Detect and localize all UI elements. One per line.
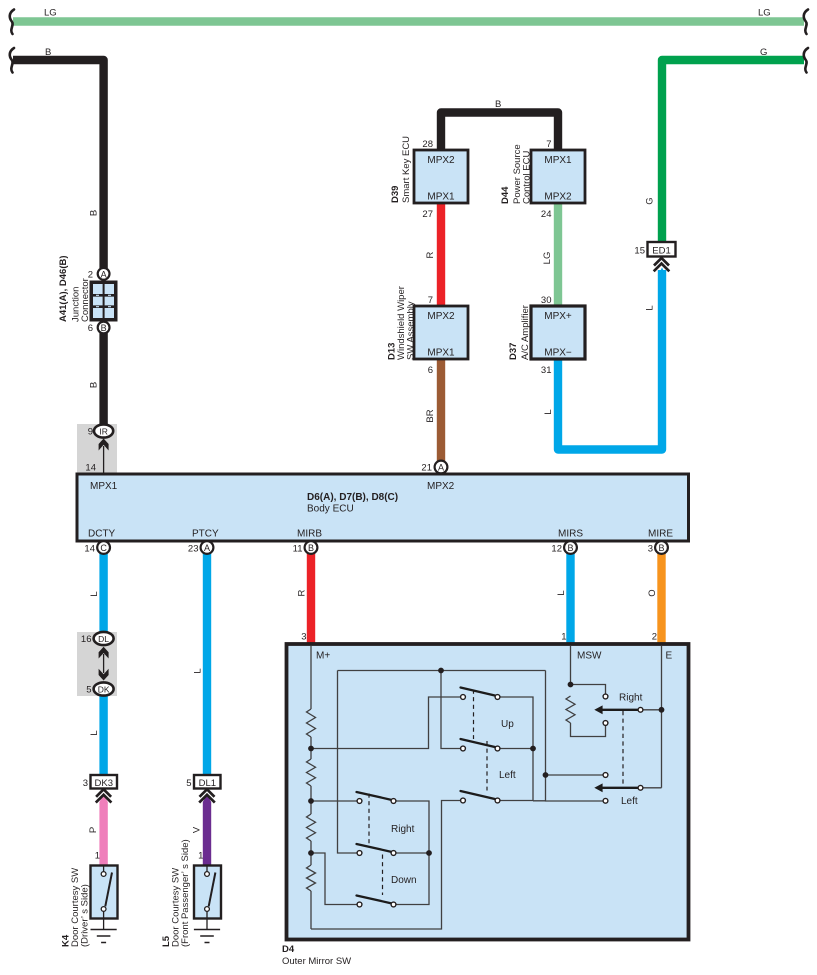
pin 16 label	[81, 634, 92, 645]
chevron connector under DL1	[199, 789, 215, 802]
wire bottom rail to left contact of bottom left-switch	[311, 801, 461, 930]
pin 14 label	[85, 463, 96, 474]
svg-text:MPX2: MPX2	[544, 192, 572, 203]
label G vertical	[645, 197, 656, 204]
svg-text:28: 28	[422, 139, 433, 150]
blade up switch	[461, 688, 498, 697]
pin 7 of D44	[546, 139, 551, 150]
svg-text:MIRB: MIRB	[297, 529, 322, 540]
label L vertical PTCY	[193, 668, 204, 673]
chevron connector under DK3	[96, 789, 112, 802]
power source control ECU D44	[531, 150, 585, 203]
label LG left	[44, 8, 57, 19]
label A41(A) D46(B) junction connector	[58, 255, 91, 322]
label L vertical near ED1	[645, 305, 656, 310]
label Outer Mirror SW	[282, 956, 351, 967]
svg-text:3: 3	[301, 632, 306, 643]
wire L blue MIRS pin12 to D4	[566, 554, 574, 645]
pin 1 K4 label	[95, 851, 100, 862]
svg-text:V: V	[192, 826, 203, 833]
wire L blue DCTY pin14 to DL oval	[99, 554, 107, 634]
wire middle right contact link of right-down group	[396, 852, 429, 854]
svg-text:B: B	[495, 99, 501, 110]
svg-text:7: 7	[428, 295, 433, 306]
svg-text:B: B	[101, 323, 107, 333]
label LG vertical	[542, 252, 553, 265]
label L vertical near D37	[543, 409, 554, 414]
arrow tip of select right blade	[594, 705, 602, 714]
svg-text:IR: IR	[99, 427, 108, 437]
link up-left switches 1-2	[473, 690, 475, 740]
svg-text:Body ECU: Body ECU	[307, 504, 354, 515]
wire from node R3-R4 to down-switch left contact	[311, 853, 357, 905]
svg-text:MPX2: MPX2	[427, 155, 455, 166]
wire select left switch pivot to E line	[643, 787, 662, 789]
svg-text:14: 14	[85, 463, 96, 474]
pin 9 label	[88, 427, 93, 438]
wire right bracket of right-down group	[396, 801, 429, 905]
svg-text:DCTY: DCTY	[88, 529, 116, 540]
wire LG top horizontal	[13, 17, 804, 26]
label L vertical DCTY lower	[89, 730, 100, 735]
svg-text:9: 9	[88, 427, 93, 438]
svg-text:D39: D39	[390, 186, 401, 203]
svg-text:A/C Amplifier: A/C Amplifier	[520, 305, 531, 360]
svg-text:Left: Left	[499, 770, 516, 781]
wire middle right contact link of up-left group	[500, 748, 533, 750]
pin 3 DK3 label	[83, 778, 88, 789]
blade bottom switch of up-left group	[461, 791, 498, 800]
wire top rail right drop to mirror-select left switch contacts	[546, 671, 604, 802]
arrow up under IR oval	[99, 439, 109, 451]
svg-text:5: 5	[86, 685, 91, 696]
label P vertical	[88, 827, 99, 833]
svg-text:L: L	[89, 730, 100, 735]
svg-text:3: 3	[83, 778, 88, 789]
blade select right switch	[601, 709, 641, 711]
wire BR brown D13 pin6 to body ECU pin21	[437, 360, 445, 461]
wire B black junction connector B to IR oval	[99, 333, 107, 426]
label L vertical MIRS	[556, 590, 567, 595]
connector DK3	[91, 775, 118, 789]
label K4 Door Courtesy SW (Driver s Side)	[61, 868, 91, 947]
arrow down above DK	[99, 669, 109, 681]
break symbol right of G wire	[804, 48, 808, 73]
break symbol left of LG wire	[10, 10, 14, 35]
connector oval DK	[94, 682, 114, 695]
contact circles select switches	[603, 694, 643, 803]
wire select right switch pivot to E line	[643, 709, 662, 711]
wire branch to upper contact of select left switch	[546, 774, 604, 776]
pin 3 MIRE label	[648, 544, 653, 555]
node B circle below junction connector	[98, 322, 110, 334]
svg-text:G: G	[645, 197, 656, 204]
node A circle at body ECU pin 21	[435, 461, 448, 474]
svg-text:6: 6	[88, 323, 93, 334]
label E	[666, 651, 673, 662]
shield gray area around IR	[77, 424, 117, 474]
arrow tip of select left blade	[594, 783, 602, 792]
svg-text:Right: Right	[619, 693, 643, 704]
contact circles up-left group	[461, 695, 500, 803]
wire top rail node drop to middle contact of up-left group	[441, 671, 461, 749]
pin 11 MIRB label	[293, 544, 303, 555]
svg-text:1: 1	[198, 851, 203, 862]
resistor chain R4	[307, 865, 316, 891]
svg-text:21: 21	[421, 463, 432, 474]
smart key ECU D39	[414, 150, 468, 203]
label L5 Door Courtesy SW (Front Passenger s Side)	[161, 839, 191, 947]
label Right (right-down group)	[391, 824, 415, 835]
pin 6 of D13	[428, 365, 433, 376]
svg-text:1: 1	[561, 632, 566, 643]
svg-text:Smart Key ECU: Smart Key ECU	[401, 136, 412, 203]
pin 2 E label	[652, 632, 657, 643]
svg-text:Outer Mirror SW: Outer Mirror SW	[282, 956, 351, 967]
resistor MSW	[566, 696, 575, 723]
connector DL1	[194, 775, 221, 789]
svg-text:16: 16	[81, 634, 92, 645]
svg-text:MIRS: MIRS	[558, 529, 583, 540]
svg-text:A: A	[438, 463, 444, 473]
svg-text:B: B	[45, 47, 51, 58]
svg-text:G: G	[760, 47, 767, 58]
wire from node R2-R3 to right-switch left contact	[311, 800, 357, 802]
label Left (up-left group)	[499, 770, 516, 781]
wire B black from left edge down to junction connector	[13, 60, 104, 268]
svg-text:12: 12	[551, 544, 562, 555]
svg-text:Connector: Connector	[80, 278, 91, 322]
connector ED1	[648, 242, 676, 257]
wire right bracket of up-left group	[500, 697, 546, 801]
svg-text:(Driver’ s Side): (Driver’ s Side)	[80, 884, 91, 947]
svg-text:MPX1: MPX1	[544, 155, 572, 166]
link select switches	[622, 711, 624, 786]
pin 14 DCTY label	[84, 544, 95, 555]
label D44 Power Source Control ECU	[500, 144, 533, 204]
label B horizontal	[45, 47, 51, 58]
svg-text:L: L	[543, 409, 554, 414]
link right-down switches 1-2	[368, 794, 370, 844]
wire R red MIRB pin11 to D4	[307, 554, 315, 645]
svg-text:Control ECU: Control ECU	[522, 151, 533, 204]
svg-text:Down: Down	[391, 875, 417, 886]
thin link line between arrows	[103, 654, 105, 673]
label Up	[501, 719, 514, 730]
svg-text:L: L	[193, 668, 204, 673]
node A circle above junction connector	[98, 268, 110, 280]
svg-text:MPX2: MPX2	[427, 311, 455, 322]
wire segments of resistor chain	[310, 737, 312, 929]
svg-text:30: 30	[541, 295, 552, 306]
label B vertical lower	[89, 382, 100, 388]
A/C amplifier D37	[531, 306, 585, 359]
blade select left switch	[601, 787, 641, 789]
resistor chain R1	[307, 709, 316, 737]
junction dots inside D4	[308, 668, 664, 856]
pin 12 MIRS label	[551, 544, 562, 555]
svg-text:P: P	[88, 827, 99, 833]
chevron connector under ED1	[654, 258, 670, 271]
wire from node R1-R2 to up-switch left contact	[311, 697, 461, 749]
svg-text:MPX−: MPX−	[544, 348, 572, 359]
node B circle at pin 11 MIRB	[305, 541, 318, 554]
svg-text:R: R	[425, 251, 436, 258]
wire top rail left drop to middle contact of right-down group	[338, 671, 358, 854]
ground symbol under L5	[194, 919, 220, 943]
svg-text:LG: LG	[758, 8, 771, 19]
door courtesy SW L5	[194, 866, 221, 919]
svg-text:27: 27	[422, 209, 433, 220]
blade right switch (right-down group top)	[357, 792, 394, 800]
svg-text:L: L	[556, 590, 567, 595]
svg-text:SW Assembly: SW Assembly	[405, 301, 416, 360]
wire L blue DK oval to DK3	[99, 694, 107, 775]
svg-text:O: O	[647, 589, 658, 596]
wire V violet DL1 to L5 with pointed tip	[203, 794, 211, 865]
svg-text:DL1: DL1	[199, 778, 216, 789]
svg-text:24: 24	[541, 209, 552, 220]
node B circle at pin 12 MIRS	[564, 541, 577, 554]
connector oval IR	[94, 424, 113, 437]
svg-text:L: L	[89, 591, 100, 596]
wire L blue D37 pin31 to ED1	[558, 270, 662, 450]
blade left switch (up-left group middle)	[461, 739, 498, 748]
pin 1 L5 label	[198, 851, 203, 862]
label D37 A/C Amplifier	[508, 305, 531, 360]
node C circle at pin 14 DCTY	[97, 541, 110, 554]
svg-text:L: L	[645, 305, 656, 310]
svg-text:5: 5	[186, 778, 191, 789]
wire G green from right edge down to ED1	[662, 60, 804, 242]
label LG right	[758, 8, 771, 19]
svg-text:2: 2	[652, 632, 657, 643]
svg-text:BR: BR	[425, 409, 436, 422]
svg-text:B: B	[308, 543, 314, 553]
label B vertical upper	[89, 210, 100, 216]
pin 24 of D44	[541, 209, 552, 220]
svg-text:DL: DL	[98, 634, 109, 644]
svg-text:DK: DK	[98, 685, 110, 695]
svg-text:(Front Passenger’ s Side): (Front Passenger’ s Side)	[180, 839, 191, 947]
wire L blue PTCY pin23 to DL1	[203, 554, 211, 776]
pin 3 M+ label	[301, 632, 306, 643]
pin 1 MSW label	[561, 632, 566, 643]
svg-text:MIRE: MIRE	[648, 529, 673, 540]
node B circle at pin 3 MIRE	[655, 541, 668, 554]
svg-text:PTCY: PTCY	[192, 529, 219, 540]
wire LG D44 pin24 to D37 pin30	[554, 203, 562, 306]
link right-down switches 2-3	[382, 855, 384, 896]
label D4	[282, 944, 295, 955]
svg-text:MPX1: MPX1	[90, 481, 118, 492]
label MSW	[577, 651, 602, 662]
label BR vertical	[425, 409, 436, 422]
label D39 Smart Key ECU	[390, 136, 412, 203]
wire top rail	[338, 670, 546, 672]
label L vertical DCTY upper	[89, 591, 100, 596]
svg-text:11: 11	[293, 544, 303, 555]
svg-text:B: B	[89, 382, 100, 388]
wire MSW node to upper contact of select right switch	[571, 685, 606, 695]
svg-text:E: E	[666, 651, 673, 662]
svg-text:A: A	[101, 269, 107, 279]
connector oval DL	[94, 632, 114, 645]
pin 27 of D39	[422, 209, 433, 220]
svg-text:D37: D37	[508, 343, 519, 360]
svg-text:MSW: MSW	[577, 651, 602, 662]
svg-text:3: 3	[648, 544, 653, 555]
svg-text:MPX2: MPX2	[427, 481, 455, 492]
node A circle at pin 23 PTCY	[201, 541, 214, 554]
label D13 Windshield Wiper SW Assembly	[387, 286, 417, 360]
wire E feed	[661, 646, 663, 788]
svg-text:14: 14	[84, 544, 95, 555]
svg-text:MPX1: MPX1	[427, 192, 455, 203]
shield gray area around DL DK	[77, 632, 117, 696]
pin 6 label	[88, 323, 93, 334]
link up-left switches 2-3	[486, 741, 488, 791]
outer mirror SW D4 box	[287, 644, 689, 940]
wire M+ feed into resistor chain	[310, 646, 312, 709]
svg-text:6: 6	[428, 365, 433, 376]
resistor chain R3	[307, 814, 316, 841]
svg-text:DK3: DK3	[95, 778, 113, 789]
wire R red D39 pin27 to D13 pin7	[437, 203, 445, 306]
door courtesy SW K4	[91, 866, 118, 919]
dashed mechanical links	[369, 690, 623, 896]
svg-text:LG: LG	[542, 252, 553, 265]
svg-text:D44: D44	[500, 186, 511, 204]
svg-text:A41(A), D46(B): A41(A), D46(B)	[58, 255, 69, 322]
svg-text:B: B	[89, 210, 100, 216]
wire L blue pointed tip under ED1 chevron	[658, 268, 666, 277]
label M+	[316, 651, 330, 662]
pin 7 of D13	[428, 295, 433, 306]
pin 15 of ED1	[634, 246, 645, 257]
label Right (select)	[619, 693, 643, 704]
svg-text:1: 1	[95, 851, 100, 862]
wire O orange MIRE pin3 to D4	[657, 554, 665, 645]
thin wire from arrow to body ECU pin 14	[103, 446, 105, 473]
svg-text:D4: D4	[282, 944, 295, 955]
arrow up below DL	[99, 647, 109, 659]
svg-text:Left: Left	[621, 796, 638, 807]
junction connector A41(A) D46(B)	[90, 281, 118, 322]
label R vertical	[425, 251, 436, 258]
body ECU D6(A) D7(B) D8(C)	[77, 474, 689, 541]
svg-text:A: A	[204, 543, 210, 553]
pin 30 of D37	[541, 295, 552, 306]
break symbol right of LG wire	[804, 10, 808, 35]
pin 28 of D39	[422, 139, 433, 150]
pin 31 of D37	[541, 365, 552, 376]
pin 21 label	[421, 463, 432, 474]
blade down switch	[357, 896, 394, 904]
svg-text:R: R	[297, 589, 308, 596]
pin 2 label	[88, 270, 93, 281]
svg-text:23: 23	[188, 544, 199, 555]
resistor chain R2	[307, 759, 316, 786]
pin 5 DL1 label	[186, 778, 191, 789]
svg-text:ED1: ED1	[652, 246, 670, 257]
break symbol left of B wire	[10, 48, 14, 73]
label B on D39-D44 jumper	[495, 99, 501, 110]
svg-text:7: 7	[546, 139, 551, 150]
windshield wiper SW assembly D13	[414, 306, 468, 359]
svg-text:B: B	[658, 543, 664, 553]
label O vertical MIRE	[647, 589, 658, 596]
svg-text:LG: LG	[44, 8, 57, 19]
svg-text:31: 31	[541, 365, 552, 376]
label V vertical	[192, 826, 203, 833]
svg-text:Right: Right	[391, 824, 415, 835]
pin 5 label	[86, 685, 91, 696]
svg-text:Up: Up	[501, 719, 514, 730]
svg-text:MPX1: MPX1	[427, 348, 455, 359]
label Down	[391, 875, 417, 886]
svg-text:15: 15	[634, 246, 645, 257]
label G horizontal	[760, 47, 767, 58]
svg-text:M+: M+	[316, 651, 330, 662]
wire P pink DK3 to K4 with pointed tip	[99, 794, 107, 865]
blade middle switch of right-down group	[357, 844, 394, 852]
label Left (select)	[621, 796, 638, 807]
wire MSW resistor to lower contact of select right switch	[571, 723, 606, 737]
svg-text:D6(A), D7(B), D8(C): D6(A), D7(B), D8(C)	[307, 492, 398, 503]
svg-text:MPX+: MPX+	[544, 311, 572, 322]
wire MSW feed	[570, 646, 572, 685]
contact circles right-down group	[357, 799, 396, 907]
pin 23 PTCY label	[188, 544, 199, 555]
label R vertical MIRB	[297, 589, 308, 596]
svg-text:C: C	[100, 543, 107, 553]
svg-text:B: B	[567, 543, 573, 553]
wire B black between D39 and D44 tops	[441, 113, 558, 151]
ground symbol under K4	[91, 919, 117, 943]
